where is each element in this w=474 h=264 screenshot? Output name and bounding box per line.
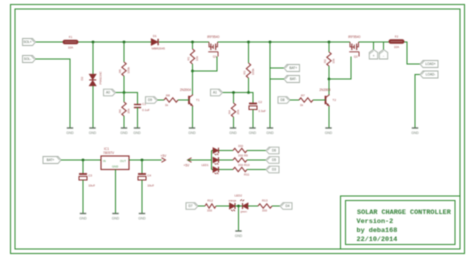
svg-text:R13: R13 [262, 199, 268, 203]
title block inner border [346, 201, 456, 245]
connector flag BAT- [284, 76, 300, 83]
terminal flag JP2 [379, 50, 387, 60]
svg-text:+: + [373, 54, 375, 58]
svg-text:10k: 10k [332, 58, 336, 63]
capacitor C2 [249, 104, 257, 110]
connector flag BAT+ to regulator [43, 157, 61, 164]
svg-text:D2: D2 [80, 76, 84, 80]
wire top rail to resistor R5 [123, 42, 125, 62]
wire rail to terminal JP2 [383, 42, 385, 50]
wire resistor R12 to LED2 anode [216, 205, 230, 207]
connector flag D4 [280, 203, 292, 210]
terminal flag JP1 [369, 50, 377, 60]
ground below capacitor C4 [138, 214, 146, 221]
resistor R4 [231, 103, 235, 117]
svg-text:F1: F1 [69, 35, 73, 39]
svg-text:GND: GND [138, 216, 146, 220]
ground below capacitor C2 [249, 128, 257, 135]
wire BAT- flag to ground [270, 79, 284, 128]
svg-text:R12: R12 [207, 199, 213, 203]
svg-text:LED1: LED1 [202, 163, 209, 167]
wire node A0 to capacitor C1 [116, 93, 138, 105]
wire input node to capacitor C3 [82, 160, 84, 174]
svg-text:22/10/2014: 22/10/2014 [357, 236, 398, 244]
svg-text:R8: R8 [166, 93, 170, 97]
svg-text:3.3uF: 3.3uF [258, 109, 266, 113]
svg-text:T2: T2 [333, 98, 337, 102]
wire flag D8 to resistor R7 [290, 99, 299, 101]
connector flag D9 to T1 base [146, 97, 158, 104]
+5V supply arrow at regulator output [161, 154, 168, 162]
svg-text:orange: orange [229, 199, 237, 202]
mosfet Q2 IRF9540 [349, 42, 359, 57]
svg-text:20k: 20k [236, 109, 240, 114]
wire battery tap down [270, 42, 284, 68]
wire top rail to TVS diode [92, 42, 94, 74]
wire anode rail stub row 3 [212, 169, 214, 171]
LED LED1-A [213, 148, 219, 155]
connector flag A0 [104, 89, 116, 96]
wire capacitor C2 to ground [252, 110, 254, 128]
svg-text:D4: D4 [285, 204, 289, 208]
resistor R12 [205, 204, 216, 208]
wire top rail mosfet Q2 to fuse F2 [359, 41, 390, 43]
svg-text:SOL+: SOL+ [23, 40, 31, 44]
junction top rail at resistor R1 [191, 41, 194, 44]
svg-text:IN: IN [103, 159, 106, 163]
svg-text:A0: A0 [106, 91, 110, 95]
svg-text:R3: R3 [242, 70, 246, 74]
wire capacitor C3 to ground [82, 180, 84, 213]
resistor R10 [233, 158, 247, 162]
svg-text:GND: GND [66, 131, 74, 135]
wire solar+ from connector to fuse F1 [35, 41, 64, 43]
svg-text:green: green [241, 210, 248, 213]
svg-text:330: 330 [238, 163, 243, 167]
svg-text:R7: R7 [301, 93, 305, 97]
connector flag A1 [211, 89, 223, 96]
svg-text:GND: GND [112, 216, 120, 220]
svg-text:330: 330 [238, 144, 243, 148]
wire node A1 horizontal [223, 93, 254, 104]
wire gate node 2 to mosfet Q2 gate [329, 57, 351, 80]
svg-text:330: 330 [207, 208, 212, 212]
wire fuse F2 to load corner [404, 42, 420, 64]
resistor R3 [246, 63, 250, 78]
wire gate node 2 down to transistor T2 collector [328, 79, 330, 95]
wire top rail to resistor R1 [192, 42, 194, 49]
wire resistor R1 to gate node [192, 64, 194, 71]
junction top rail at resistor R2 [328, 41, 331, 44]
svg-text:MBR2045: MBR2045 [152, 46, 166, 50]
junction top rail at resistor R3 [247, 41, 250, 44]
resistor R9 [233, 148, 247, 152]
wire IC1 ground pin to ground [115, 170, 117, 214]
svg-text:LED2: LED2 [235, 193, 243, 197]
svg-text:GND: GND [235, 234, 243, 238]
svg-text:P6KE36C: P6KE36C [99, 70, 103, 84]
svg-text:10k: 10k [195, 56, 199, 61]
wire LED1 anode rail vertical [211, 151, 213, 170]
connector flag LOAD+ [420, 61, 438, 68]
transistor T2 2N3904 [326, 95, 330, 107]
wire gate node down to transistor T1 collector [192, 71, 194, 95]
wire TVS diode to ground [92, 86, 94, 128]
svg-text:D5: D5 [272, 158, 276, 162]
svg-text:GND: GND [89, 131, 97, 135]
LED LED1-B [213, 157, 219, 164]
wire top rail mosfet Q1 to mosfet Q2 [218, 41, 351, 43]
wire flag D7 to resistor R12 [198, 205, 205, 207]
connector flag SOL+ X1-1 [23, 39, 36, 46]
wire resistor R6 to ground [123, 116, 125, 128]
capacitor C3 [79, 174, 87, 180]
svg-text:D3: D3 [272, 168, 276, 172]
resistor R2 [327, 52, 331, 66]
svg-text:R5: R5 [118, 69, 122, 73]
svg-text:10A: 10A [394, 45, 399, 49]
svg-text:C4: C4 [147, 174, 151, 178]
resistor R5 [122, 62, 126, 76]
svg-text:C3: C3 [88, 174, 92, 178]
capacitor C1 [134, 105, 141, 108]
wire top rail fuse F1 to diode D1 [78, 41, 151, 43]
resistor R7 [299, 98, 313, 102]
wire resistor R3 to node A1 [248, 78, 250, 93]
junction IC1 output at C4 [141, 159, 144, 162]
connector flag D3 [266, 166, 279, 173]
svg-text:GND: GND [133, 131, 141, 135]
wire flag D9 to resistor R8 [158, 99, 165, 101]
svg-text:100k: 100k [251, 68, 255, 75]
wire resistor R5 to node A0 [123, 76, 125, 93]
resistor R13 [258, 204, 272, 208]
wire resistor R4 to ground [233, 117, 235, 128]
connector flag BAT+ [284, 65, 300, 72]
svg-text:GND: GND [266, 131, 274, 135]
ground below solar- wire [66, 128, 74, 135]
ground below transistor T2 [325, 128, 333, 135]
svg-text:R11: R11 [244, 172, 250, 176]
resistor R6 [122, 102, 126, 116]
wire resistor R10 to flag D5 [247, 159, 266, 161]
wire IC1 output to +5V arrow [129, 159, 162, 161]
svg-text:D1: D1 [153, 34, 157, 38]
svg-text:Q1: Q1 [213, 55, 217, 59]
svg-text:100k: 100k [127, 66, 131, 73]
bicolor LED2 right diode [240, 199, 248, 209]
+5V supply arrow feeding LED1 block [184, 158, 192, 168]
wire LED1-C cathode to resistor R11 [219, 169, 233, 171]
TVS diode D2 P6KE36C [89, 74, 96, 85]
svg-text:IRF9540: IRF9540 [207, 35, 219, 39]
svg-text:R6: R6 [118, 109, 122, 113]
svg-text:10uF: 10uF [147, 184, 154, 188]
wire rail to terminal JP1 [373, 42, 375, 50]
svg-text:Version-2: Version-2 [357, 218, 394, 226]
wire LED1-A cathode to resistor R9 [219, 150, 233, 152]
svg-text:10A: 10A [68, 45, 73, 49]
svg-text:2N3904: 2N3904 [319, 88, 330, 92]
connector flag D7 to LED2 [186, 203, 198, 210]
svg-text:D6: D6 [272, 149, 276, 153]
resistor R8 [164, 98, 178, 102]
wire transistor T1 emitter to ground [192, 106, 194, 127]
svg-text:IRF9540: IRF9540 [348, 35, 360, 39]
svg-text:1k: 1k [300, 103, 304, 107]
svg-text:SOLAR CHARGE CONTROLLER: SOLAR CHARGE CONTROLLER [357, 209, 452, 217]
svg-text:GND: GND [79, 216, 87, 220]
wire output node to capacitor C4 [141, 160, 143, 174]
ground below transistor T1 [188, 128, 196, 135]
junction LED2 common cathode [237, 205, 240, 208]
svg-text:330: 330 [238, 154, 243, 158]
wire top rail to resistor R3 [248, 42, 250, 63]
diode D1 [151, 39, 158, 45]
svg-text:+5V: +5V [161, 154, 168, 158]
title block outer border [341, 196, 461, 249]
svg-text:A1: A1 [213, 91, 217, 95]
svg-text:LOAD+: LOAD+ [425, 62, 436, 66]
wire BAT+ flag to IC1 input [61, 159, 101, 161]
svg-text:330: 330 [262, 208, 267, 212]
svg-text:R2: R2 [323, 59, 327, 63]
svg-text:C2: C2 [258, 100, 262, 104]
connector flag D6 [266, 147, 279, 154]
svg-text:D9: D9 [148, 98, 152, 102]
svg-text:7805TV: 7805TV [103, 151, 115, 155]
wire LED2 right to resistor R13 [248, 205, 258, 207]
junction top rail at divider R5 [123, 41, 126, 44]
svg-text:OUT: OUT [120, 159, 126, 163]
svg-text:20k: 20k [127, 108, 131, 113]
svg-text:F2: F2 [395, 35, 399, 39]
svg-text:BAT-: BAT- [290, 77, 297, 81]
wire capacitor C1 to ground [137, 108, 139, 128]
mosfet Q1 IRF9540 [208, 42, 218, 57]
connector flag SOL- X1-2 [23, 56, 36, 63]
ground below LOAD- wire [411, 128, 419, 135]
wire capacitor C4 to ground [141, 180, 143, 213]
svg-text:BAT+: BAT+ [47, 158, 55, 162]
ground below resistor R4 [229, 128, 237, 135]
resistor R11 [233, 167, 247, 171]
wire solar- to ground [36, 59, 71, 128]
junction top rail at TVS D2 [92, 41, 95, 44]
ground below BAT- wire [266, 128, 274, 135]
fuse F2 [389, 40, 404, 44]
svg-text:T1: T1 [196, 98, 200, 102]
junction node A1 at R4 [232, 91, 235, 94]
svg-text:R10: R10 [244, 163, 250, 167]
svg-text:GND: GND [325, 131, 333, 135]
wire load- return down [415, 75, 420, 128]
ground below TVS diode [89, 128, 97, 135]
svg-text:0.1uF: 0.1uF [142, 108, 150, 112]
wire resistor R8 to T1 base [178, 99, 189, 101]
svg-text:10uF: 10uF [88, 184, 95, 188]
svg-text:GND: GND [249, 131, 257, 135]
wire resistor R9 to flag D6 [247, 150, 266, 152]
svg-text:GND: GND [120, 131, 128, 135]
capacitor C4 [138, 174, 146, 180]
wire +5V arrow to LED1 anode rail [188, 159, 212, 161]
svg-text:GND: GND [112, 165, 118, 169]
connector flag D5 [266, 157, 279, 164]
svg-text:GND: GND [411, 131, 419, 135]
svg-text:IC1: IC1 [104, 147, 109, 151]
svg-text:Q2: Q2 [354, 55, 358, 59]
wire resistor R2 to gate node 2 [328, 66, 330, 79]
wire node A1 to resistor R4 [233, 93, 235, 104]
svg-text:R9: R9 [244, 153, 248, 157]
wire top rail diode D1 to mosfet Q1 [159, 41, 209, 43]
wire anode rail stub row 1 [212, 150, 214, 152]
wire node A0 to resistor R6 [123, 93, 125, 103]
wire gate node to mosfet Q1 gate [193, 57, 218, 72]
ground below IC1 [112, 214, 120, 221]
junction gate node T1 collector [191, 70, 194, 73]
svg-text:2N3904: 2N3904 [180, 88, 191, 92]
svg-text:SOL-: SOL- [24, 57, 31, 61]
wire resistor R7 to T2 base [313, 99, 326, 101]
junction gate node T2 collector [328, 78, 331, 81]
junction top rail battery tap [269, 41, 272, 44]
svg-text:-: - [383, 54, 384, 58]
svg-text:D8: D8 [280, 98, 284, 102]
svg-text:+5V: +5V [184, 164, 191, 168]
wire transistor T2 emitter to ground [328, 106, 330, 127]
connector flag LOAD- [420, 71, 438, 78]
svg-text:R1: R1 [186, 56, 190, 60]
wire battery rail continuation [269, 68, 271, 79]
svg-text:LOAD-: LOAD- [426, 73, 436, 77]
wire top rail to resistor R2 [328, 42, 330, 52]
svg-text:R4: R4 [227, 110, 231, 114]
connector flag D8 to T2 base [278, 97, 290, 104]
voltage regulator IC1 7805TV body [101, 156, 129, 170]
wire LED2 common to ground [238, 206, 240, 231]
ground below capacitor C1 [133, 128, 141, 135]
svg-text:1k: 1k [165, 103, 169, 107]
junction node A1 at R3 bottom [247, 91, 250, 94]
junction node A0 at R6 [123, 91, 126, 94]
svg-text:GND: GND [188, 131, 196, 135]
bicolor LED2 left diode [230, 203, 236, 211]
wire LED2 common cathode segment [235, 205, 243, 207]
ground below resistor R6 [120, 128, 128, 135]
junction IC1 input at C3 [82, 159, 85, 162]
ground below LED2 [235, 231, 243, 238]
wire resistor R11 to flag D3 [247, 169, 266, 171]
svg-text:GND: GND [229, 131, 237, 135]
wire LED1-B cathode to resistor R10 [219, 159, 233, 161]
wire resistor R13 to flag D4 [272, 205, 280, 207]
transistor T1 2N3904 [189, 95, 193, 107]
svg-text:BAT+: BAT+ [289, 66, 297, 70]
ground below capacitor C3 [79, 214, 87, 221]
svg-text:D7: D7 [188, 204, 192, 208]
fuse F1 [63, 40, 78, 44]
svg-text:by deba168: by deba168 [357, 227, 398, 235]
resistor R1 [190, 49, 194, 64]
LED LED1-C [213, 167, 219, 174]
